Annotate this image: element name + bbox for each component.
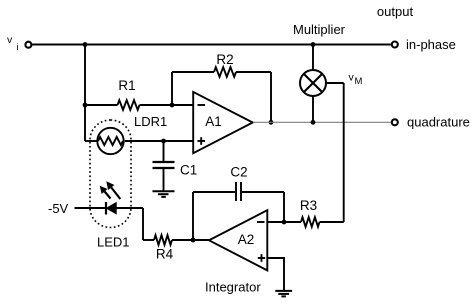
wire R2 left lead: [172, 71, 214, 73]
resistor R1: [118, 100, 140, 110]
wire R1 left lead: [85, 104, 118, 106]
pin minus A2: [257, 221, 265, 223]
wire input vertical: [84, 45, 86, 142]
svg-text:Integrator: Integrator: [205, 280, 261, 295]
junction input node: [83, 42, 88, 47]
ground A2: [275, 291, 292, 297]
wire R2 right lead: [236, 71, 271, 73]
wire C1 bottom lead: [163, 168, 165, 191]
junction multiplier quadrature: [311, 120, 316, 125]
svg-text:in-phase: in-phase: [406, 37, 456, 52]
wire LED right lead: [116, 207, 143, 209]
wire vM vertical to R3: [343, 83, 345, 222]
svg-text:C1: C1: [180, 163, 197, 178]
wire C2 left lead: [193, 191, 236, 193]
wire R4 left lead: [143, 239, 154, 241]
svg-text:-5V: -5V: [48, 201, 69, 216]
wire R3 right lead: [320, 221, 344, 223]
wire C2 feedback left vertical: [192, 192, 194, 240]
op-amp A2: [209, 210, 267, 270]
wire R1 to A1 inverting input: [140, 104, 194, 106]
wire vM stub: [326, 82, 344, 84]
svg-text:A1: A1: [205, 114, 222, 129]
svg-text:M: M: [355, 76, 363, 87]
ground C1: [153, 191, 175, 197]
wire R2 feedback left vertical: [171, 72, 173, 105]
optocoupler dotted enclosure: [90, 120, 131, 228]
wire multiplier bottom lead: [312, 96, 314, 122]
svg-text:A2: A2: [238, 232, 255, 247]
pin minus A1: [198, 104, 206, 106]
svg-text:quadrature: quadrature: [407, 115, 470, 130]
svg-text:R4: R4: [156, 247, 174, 262]
junction C1 tap: [161, 139, 166, 144]
junction A2 inverting node: [282, 220, 287, 225]
svg-text:LED1: LED1: [97, 235, 130, 250]
wire LDR to A1 noninverting input: [125, 140, 193, 142]
junction R1 tap: [83, 103, 88, 108]
terminal in-phase: [392, 42, 398, 48]
junction A2 output node: [191, 238, 196, 243]
resistor R4: [154, 235, 172, 245]
resistor R2: [214, 67, 236, 77]
svg-text:v: v: [7, 34, 13, 46]
node vM label: [349, 72, 363, 88]
junction A1 output feedback: [269, 120, 274, 125]
svg-text:R2: R2: [216, 52, 233, 67]
wire LED corner vertical: [142, 208, 144, 240]
terminal quadrature: [392, 119, 398, 125]
wire R3 left lead: [267, 221, 301, 223]
op-amp A1: [193, 92, 253, 153]
svg-text:C2: C2: [230, 164, 247, 179]
svg-text:R3: R3: [300, 198, 317, 213]
wire LED left lead from -5V: [75, 207, 106, 209]
svg-text:R1: R1: [118, 78, 135, 93]
wire R2 feedback right vertical: [270, 72, 272, 122]
node vi input label: [7, 34, 19, 53]
wire C1 top lead: [163, 141, 165, 162]
diode LED1: [100, 181, 121, 214]
wire top rail vi to in-phase: [32, 44, 391, 46]
wire A2 output lead: [172, 239, 209, 241]
svg-text:output: output: [377, 4, 414, 19]
terminal vi: [25, 42, 31, 48]
junction A1 inverting node: [170, 103, 175, 108]
pin plus A1: [198, 137, 206, 145]
wire A1 output quadrature rail: [253, 121, 391, 123]
svg-text:Multiplier: Multiplier: [293, 22, 346, 37]
wire C2 right lead: [241, 191, 284, 193]
svg-text:LDR1: LDR1: [134, 114, 167, 129]
wire C2 feedback right vertical: [283, 192, 285, 222]
junction multiplier top: [311, 42, 316, 47]
capacitor C1: [153, 162, 175, 168]
wire multiplier top lead: [312, 45, 314, 71]
wire LDR left lead: [85, 140, 97, 142]
wire A2 noninverting lead: [267, 258, 284, 290]
resistor R3: [301, 217, 320, 227]
pin plus A2: [258, 254, 265, 262]
photoresistor LDR1: [97, 128, 123, 154]
capacitor C2: [236, 182, 241, 201]
svg-text:i: i: [17, 42, 19, 53]
multiplier M1: [300, 70, 326, 96]
